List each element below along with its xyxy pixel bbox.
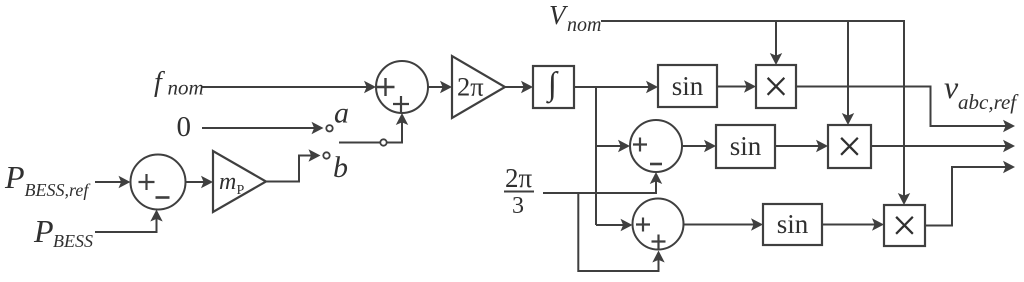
svg-text:2π: 2π	[505, 163, 533, 193]
svg-text:b: b	[333, 151, 348, 184]
svg-text:×: ×	[892, 201, 917, 251]
svg-text:P: P	[4, 159, 25, 195]
svg-text:sin: sin	[730, 131, 762, 161]
svg-text:nom: nom	[168, 76, 204, 100]
svg-text:sin: sin	[777, 209, 809, 239]
svg-text:0: 0	[177, 111, 192, 143]
svg-text:P: P	[33, 213, 54, 249]
svg-text:3: 3	[512, 193, 524, 219]
svg-text:abc,ref: abc,ref	[958, 90, 1019, 114]
svg-text:v: v	[944, 69, 959, 105]
svg-text:nom: nom	[567, 14, 601, 36]
svg-text:×: ×	[837, 122, 862, 172]
svg-text:a: a	[334, 97, 349, 130]
svg-text:BESS: BESS	[53, 231, 93, 251]
svg-text:BESS,ref: BESS,ref	[25, 180, 92, 200]
svg-text:sin: sin	[672, 71, 704, 101]
svg-text:×: ×	[763, 62, 788, 112]
svg-text:P: P	[237, 183, 245, 198]
svg-text:2π: 2π	[457, 72, 484, 102]
svg-text:m: m	[219, 169, 236, 195]
